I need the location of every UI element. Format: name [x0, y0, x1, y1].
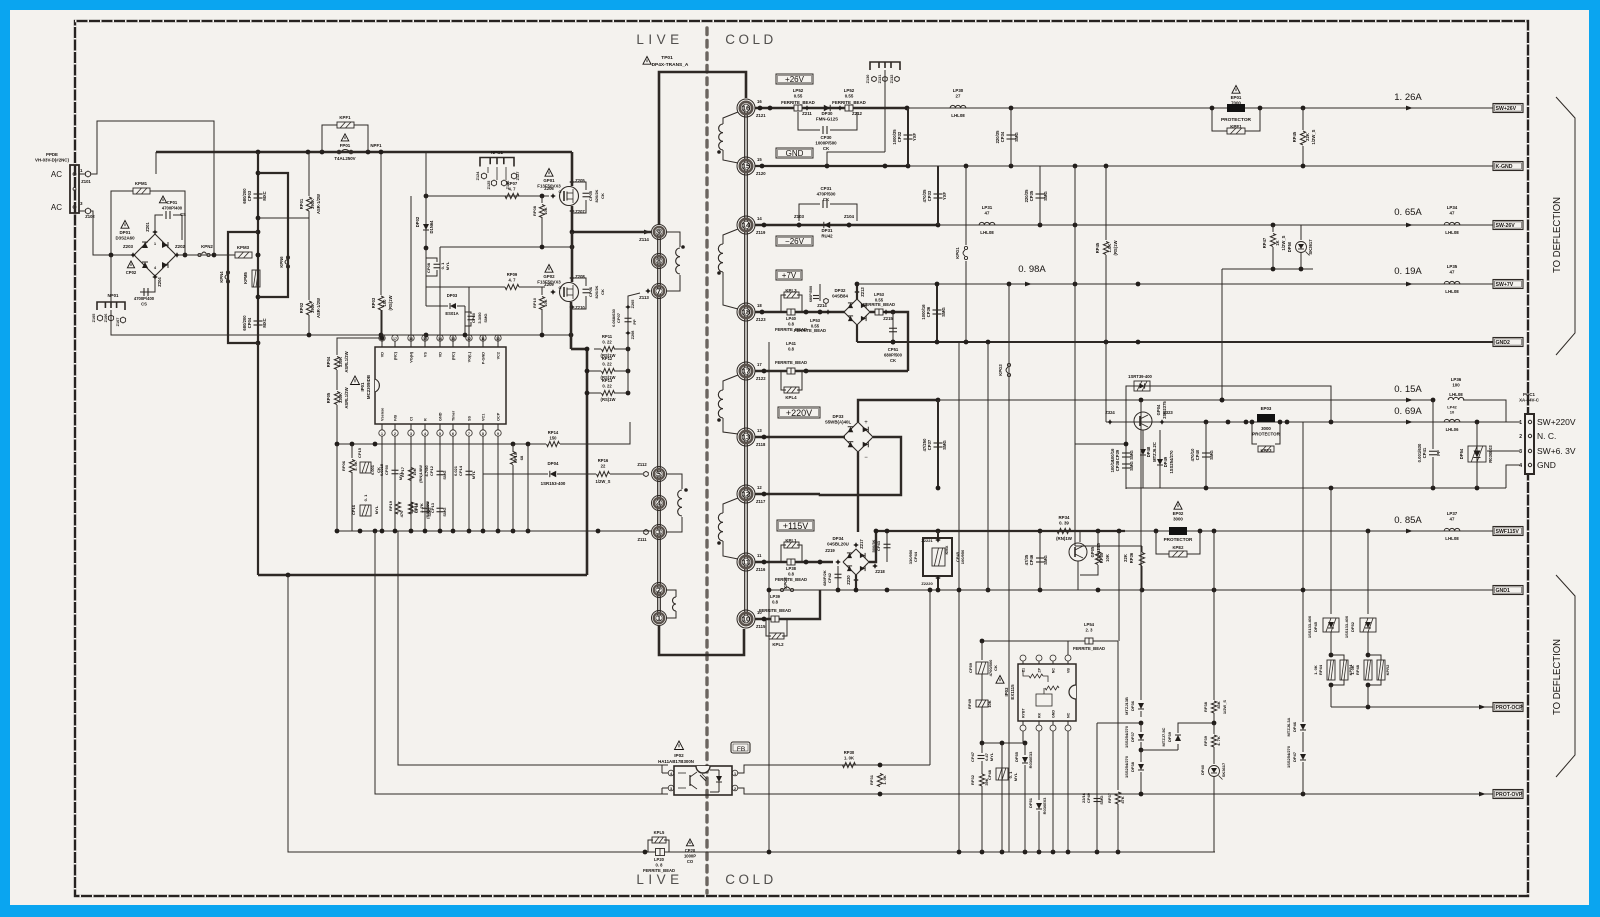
svg-text:12: 12 — [757, 485, 762, 490]
svg-text:LHL08: LHL08 — [1449, 392, 1463, 397]
svg-text:ASRL1/2W: ASRL1/2W — [344, 387, 349, 408]
svg-text:04SB84: 04SB84 — [832, 294, 848, 299]
arrow PROT-OVP — [1479, 792, 1486, 797]
zener Z208b — [625, 330, 631, 336]
svg-text:1/2W_S: 1/2W_S — [596, 479, 611, 484]
svg-text:LHL08: LHL08 — [980, 230, 994, 235]
svg-text:PROT-OCP: PROT-OCP — [1496, 705, 1524, 711]
svg-text:4. 7K: 4. 7K — [1216, 736, 1221, 746]
resistor RP18 — [408, 502, 413, 514]
IC pin top 2 ((NC)) — [394, 341, 396, 347]
svg-text:47: 47 — [1450, 270, 1455, 275]
zener Z218 — [872, 563, 878, 569]
svg-text:CP01: CP01 — [167, 200, 178, 205]
svg-text:100/16: 100/16 — [1110, 448, 1115, 461]
opto pin1 — [732, 770, 738, 776]
svg-text:GND1: GND1 — [1496, 588, 1511, 594]
svg-text:NPF1: NPF1 — [370, 143, 382, 148]
resistor RP08 — [541, 196, 543, 203]
wire opto pin4 left jog — [662, 765, 668, 773]
svg-text:SMG: SMG — [483, 313, 488, 322]
wire CP38 tie — [1075, 443, 1126, 445]
svg-text:LP36: LP36 — [1451, 377, 1462, 382]
svg-text:GND: GND — [1537, 460, 1556, 470]
arrester Z127 — [511, 173, 516, 179]
svg-text:RP48: RP48 — [1355, 664, 1360, 675]
warning IP02 — [675, 741, 684, 750]
transformer pin 17 — [737, 362, 755, 380]
svg-text:DP46: DP46 — [1292, 721, 1297, 732]
svg-text:SMG: SMG — [941, 307, 946, 317]
zener Z215 — [883, 309, 889, 315]
diode DP37 — [1140, 723, 1142, 732]
svg-text:KPM5: KPM5 — [243, 272, 248, 284]
wire +115V rail pin11 to bridge — [755, 561, 833, 563]
transformer pin 16 — [737, 99, 755, 117]
svg-text:LP31: LP31 — [982, 205, 993, 210]
resistor pair RP44/KPR4 — [1330, 632, 1332, 655]
svg-text:DP54: DP54 — [1459, 448, 1464, 459]
svg-text:Z112: Z112 — [637, 462, 647, 467]
zener Z212 — [837, 105, 843, 111]
svg-text:3: 3 — [657, 530, 661, 537]
wire bridge right loop to pin12 — [858, 437, 901, 495]
diode DP52 boxed — [1360, 618, 1376, 632]
svg-text:T4AL250V: T4AL250V — [334, 156, 355, 161]
transformer pin 1 — [652, 611, 667, 626]
svg-text:MYL: MYL — [471, 470, 476, 479]
svg-text:CS: CS — [180, 212, 186, 217]
svg-text:Z213: Z213 — [860, 287, 865, 297]
wire 0.15A to POC1 pin1 — [1463, 400, 1506, 422]
svg-text:0. 39: 0. 39 — [1059, 521, 1069, 526]
node junctions on K-GND rail — [760, 164, 765, 169]
svg-text:680P/2K: 680P/2K — [822, 570, 827, 586]
svg-text:KPG3: KPG3 — [998, 364, 1003, 376]
resistor RP11 — [602, 346, 615, 351]
svg-text:2. 3: 2. 3 — [1086, 627, 1094, 632]
svg-text:4.7/50: 4.7/50 — [424, 465, 429, 477]
svg-text:R: R — [424, 418, 428, 421]
zener Z205 — [569, 179, 575, 185]
LED DP40 — [1209, 766, 1220, 777]
optocoupler IP02 body — [674, 766, 732, 795]
svg-text:YXF: YXF — [912, 132, 917, 141]
svg-text:(RN)1W: (RN)1W — [1056, 536, 1073, 541]
svg-text:RP05: RP05 — [326, 392, 331, 403]
svg-text:470P/500: 470P/500 — [817, 192, 836, 197]
svg-text:0.001: 0.001 — [370, 464, 375, 475]
svg-text:47K: 47K — [1120, 796, 1125, 803]
ferrite bead LP38 — [787, 559, 795, 565]
svg-text:04SBL20U: 04SBL20U — [827, 542, 849, 547]
svg-text:DP33: DP33 — [833, 414, 845, 419]
svg-text:10: 10 — [757, 610, 762, 615]
svg-text:2: 2 — [657, 588, 661, 595]
svg-text:PPDE: PPDE — [46, 152, 58, 157]
svg-text:1/2W_S: 1/2W_S — [1311, 129, 1316, 144]
svg-text:VC2: VC2 — [497, 352, 501, 359]
svg-text:CP59: CP59 — [968, 662, 973, 673]
svg-text:1SS133-400: 1SS133-400 — [1307, 615, 1312, 638]
wire bridge bottom down to +115V bridge — [857, 452, 859, 532]
svg-text:DP55: DP55 — [1014, 751, 1019, 762]
svg-text:CP36: CP36 — [926, 306, 931, 317]
svg-text:1SS133-400: 1SS133-400 — [1344, 615, 1349, 638]
capacitor CP41 — [1429, 450, 1437, 452]
svg-text:KPM3: KPM3 — [237, 245, 250, 250]
svg-text:DP30: DP30 — [822, 111, 834, 116]
svg-text:DP31: DP31 — [822, 228, 834, 233]
loop KPN4 left — [228, 232, 258, 343]
IC pin bottom 2 (F/B) — [394, 424, 396, 430]
svg-text:0.8: 0.8 — [788, 346, 794, 351]
svg-text:CP41: CP41 — [1422, 447, 1427, 458]
wire RP49 down — [981, 707, 983, 743]
svg-text:390K: 390K — [310, 199, 315, 209]
svg-text:RP35: RP35 — [1099, 552, 1104, 563]
svg-text:0.021: 0.021 — [453, 465, 458, 476]
arrow 0.15A — [1406, 398, 1413, 403]
bridge rectifier DP34 — [843, 549, 869, 575]
capacitor CP03 — [257, 152, 259, 343]
IP03 pin bottom 3 — [1052, 721, 1054, 725]
svg-text:0. 98A: 0. 98A — [1018, 264, 1046, 275]
wire RP01 bottom tie — [258, 217, 309, 219]
zener DP36 — [1140, 400, 1142, 700]
svg-text:CP14: CP14 — [458, 465, 463, 476]
svg-text:CK: CK — [600, 289, 605, 295]
svg-text:R030E03: R030E03 — [1042, 797, 1047, 814]
svg-text:CP13: CP13 — [430, 502, 435, 513]
svg-text:Z131: Z131 — [878, 75, 882, 84]
transformer pin 9 — [652, 225, 667, 240]
svg-text:0. 22: 0. 22 — [602, 361, 612, 366]
resistor RP38 — [1213, 697, 1215, 700]
warning FP01 — [341, 134, 349, 141]
wire vertical x1075 — [1074, 166, 1076, 284]
svg-text:LIVE: LIVE — [636, 872, 683, 887]
svg-text:68: 68 — [519, 455, 524, 460]
svg-text:DP47: DP47 — [1292, 751, 1297, 762]
svg-text:(RN)1/8W: (RN)1/8W — [418, 465, 423, 483]
diode network 1SRT39-400 loop — [1126, 386, 1331, 422]
capacitor CP31 snubber loop — [799, 204, 820, 221]
svg-text:Z220: Z220 — [846, 575, 851, 585]
svg-text:1SS254/270: 1SS254/270 — [1169, 450, 1174, 474]
svg-text:KPN6: KPN6 — [279, 256, 284, 268]
secondary winding 12-11 — [723, 498, 738, 513]
svg-text:5: 5 — [439, 432, 441, 436]
svg-text:ASR-1/2W: ASR-1/2W — [316, 194, 321, 214]
svg-text:DP48: DP48 — [1146, 446, 1151, 457]
spark gap NPG1 — [480, 158, 514, 167]
arrester Z106 — [108, 315, 113, 321]
LED DP50 — [1300, 225, 1302, 240]
zener Z217 — [853, 542, 859, 548]
svg-text:Z202: Z202 — [175, 244, 186, 249]
svg-text:10K: 10K — [543, 207, 548, 214]
svg-text:CP04: CP04 — [247, 317, 252, 328]
svg-text:GP02: GP02 — [543, 274, 555, 279]
arrester Z132 — [895, 76, 900, 81]
resistor RP03 — [380, 152, 382, 295]
svg-text:CP31: CP31 — [821, 186, 833, 191]
IC pin bottom 8 (VC1) — [482, 424, 484, 430]
svg-text:11: 11 — [757, 553, 762, 558]
wire vertical x769 — [768, 342, 770, 852]
svg-text:PROTECTOR: PROTECTOR — [1252, 432, 1280, 437]
svg-text:KPN2: KPN2 — [201, 244, 213, 249]
svg-text:17: 17 — [393, 337, 397, 341]
svg-text:3: 3 — [670, 787, 672, 791]
svg-text:CO: CO — [687, 859, 694, 864]
svg-text:SW+26V: SW+26V — [1496, 106, 1517, 112]
svg-text:DP50: DP50 — [1287, 241, 1292, 252]
arrow on +26V rail — [1406, 106, 1413, 111]
capacitor CP40 — [1205, 422, 1207, 488]
svg-text:LP20: LP20 — [654, 857, 665, 862]
wire +7V return rail pin17 — [755, 370, 908, 372]
svg-text:(RS)1W: (RS)1W — [388, 296, 393, 311]
svg-text:CK: CK — [993, 665, 998, 671]
svg-text:FERRITE_BEAD: FERRITE_BEAD — [643, 868, 675, 873]
wire POC1 pin4 feed — [1506, 465, 1520, 488]
resistor RP49 — [976, 700, 988, 707]
svg-text:R030E03: R030E03 — [1488, 445, 1493, 463]
terminal box GND2 — [1493, 338, 1523, 347]
svg-text:OCP: OCP — [497, 412, 501, 421]
svg-text:47: 47 — [1450, 517, 1455, 522]
svg-text:TP01: TP01 — [661, 55, 673, 61]
svg-text:FERRITE_BEAD: FERRITE_BEAD — [775, 360, 807, 365]
svg-text:KPF1: KPF1 — [339, 115, 351, 120]
wire pin12 rail — [755, 493, 820, 496]
wire pin10 to GND1 rail — [790, 590, 820, 619]
svg-text:D1N64: D1N64 — [429, 220, 434, 234]
svg-text:AC: AC — [51, 170, 62, 179]
svg-text:9: 9 — [657, 230, 661, 237]
svg-text:1. 0K: 1. 0K — [1313, 665, 1318, 675]
svg-text:SW+7V: SW+7V — [1496, 282, 1514, 288]
diode DP45 boxed — [1323, 618, 1339, 632]
svg-text:DP34: DP34 — [833, 536, 845, 541]
svg-text:680P/500: 680P/500 — [884, 352, 903, 357]
resistor network KPL1 loop — [781, 545, 786, 562]
svg-text:CP46: CP46 — [1029, 554, 1034, 565]
svg-text:MTZJ6.3A: MTZJ6.3A — [1286, 717, 1291, 736]
svg-text:27: 27 — [956, 94, 961, 99]
svg-text:(RS)1W: (RS)1W — [601, 397, 616, 402]
arrester Z130 — [872, 76, 877, 81]
svg-text:RP10: RP10 — [532, 297, 537, 308]
wire RP03 bottom tie — [309, 334, 381, 336]
svg-text:RP04: RP04 — [326, 356, 331, 367]
svg-text:FERRITE_BEAD: FERRITE_BEAD — [794, 328, 826, 333]
svg-text:NP01: NP01 — [108, 293, 120, 298]
svg-text:FERRITE_BEAD: FERRITE_BEAD — [781, 100, 815, 105]
svg-text:ASR-1/2W: ASR-1/2W — [316, 298, 321, 318]
warning GP02 — [545, 265, 553, 273]
capacitor CP32 — [907, 108, 909, 166]
zener Z207 — [569, 208, 575, 214]
zener Z2xx stub top — [625, 304, 631, 310]
svg-text:KPN4: KPN4 — [219, 271, 224, 283]
resistor RP05 — [334, 392, 339, 405]
svg-text:Z116: Z116 — [756, 567, 766, 572]
svg-text:Z117: Z117 — [756, 499, 766, 504]
zener Z112 at pin5 — [644, 471, 649, 476]
hex Z112 stub — [645, 530, 651, 532]
resistor RP47 1K with LED DP50 branch — [1272, 225, 1274, 232]
capacitor CP36 — [936, 284, 938, 342]
svg-text:DP40: DP40 — [1200, 764, 1205, 775]
svg-text:3.3/50: 3.3/50 — [477, 312, 482, 324]
wire IP03 pin1 down — [1022, 731, 1024, 743]
svg-text:RP12: RP12 — [602, 356, 613, 361]
resistor RP31 — [877, 774, 882, 787]
resistor RP12 — [587, 370, 601, 372]
svg-text:Z114: Z114 — [639, 237, 649, 242]
terminal box PROT-OVP — [1493, 790, 1523, 799]
svg-text:LHL06: LHL06 — [1446, 427, 1459, 432]
wire drain bus x572 upper — [571, 152, 574, 186]
svg-text:GP01: GP01 — [543, 178, 555, 183]
svg-text:1: 1 — [734, 772, 736, 776]
wire vertical x1214 down — [1213, 531, 1215, 697]
svg-text:10K: 10K — [412, 468, 417, 475]
svg-text:PP: PP — [1436, 450, 1441, 456]
wire pin1 tie — [381, 436, 383, 444]
svg-text:KPE2: KPE2 — [1173, 545, 1185, 550]
svg-text:1000P: 1000P — [684, 853, 696, 858]
svg-text:FERRITE_BEAD: FERRITE_BEAD — [1073, 646, 1105, 651]
svg-text:Z130: Z130 — [866, 75, 870, 84]
svg-text:LP54: LP54 — [1084, 622, 1095, 627]
wire gate bus y287 — [426, 286, 505, 288]
svg-text:LP34: LP34 — [1447, 205, 1458, 210]
svg-text:1. 0K: 1. 0K — [882, 775, 887, 785]
svg-text:NC: NC — [1052, 668, 1056, 674]
resistor network KPL5 loop — [648, 840, 653, 852]
svg-text:10K: 10K — [1105, 554, 1110, 562]
capacitor CP01 loop — [155, 215, 163, 232]
svg-text:VC1: VC1 — [482, 414, 486, 421]
MOSFET GP01 — [560, 187, 579, 206]
svg-text:3000: 3000 — [1173, 517, 1183, 522]
IP03 pin top 3 — [1052, 661, 1054, 664]
transformer pin 7 — [652, 284, 667, 299]
svg-text:4: 4 — [424, 432, 426, 436]
svg-text:KPG2: KPG2 — [783, 577, 788, 589]
wire pin1 riser x930 — [929, 590, 931, 765]
wire IC bottom bus y531 — [337, 530, 645, 532]
capacitor CP20 — [686, 839, 693, 846]
zener Z208 — [569, 275, 575, 281]
svg-text:−26V: −26V — [785, 237, 805, 246]
node CP03 dots — [256, 171, 261, 176]
ferrite bead LP39 — [771, 616, 779, 622]
label GND box — [776, 148, 813, 158]
svg-text:G: G — [559, 190, 562, 194]
transformer pin 12 — [737, 485, 755, 503]
svg-text:8: 8 — [482, 432, 484, 436]
svg-text:DP49: DP49 — [1163, 456, 1168, 467]
primary winding 2-1 — [666, 590, 676, 597]
wire vertical x1222 — [1221, 269, 1223, 400]
wire x337 down — [336, 444, 338, 531]
svg-text:330/25: 330/25 — [425, 501, 430, 514]
svg-text:4: 4 — [1519, 463, 1522, 469]
node DP02 — [424, 246, 429, 251]
svg-text:100/16: 100/16 — [1110, 459, 1115, 472]
svg-text:Z124: Z124 — [476, 171, 480, 181]
wire vertical x1331 down — [1330, 488, 1332, 614]
svg-text:3000: 3000 — [1261, 426, 1271, 431]
capacitor CP35 — [1039, 166, 1041, 225]
connector PPDE AC input — [70, 165, 79, 213]
svg-text:MXC: MXC — [262, 191, 267, 200]
svg-text:CP30: CP30 — [821, 135, 833, 140]
svg-text:1. 26A: 1. 26A — [1394, 92, 1422, 103]
svg-text:0. 69A: 0. 69A — [1394, 406, 1422, 417]
svg-text:EP01: EP01 — [1231, 95, 1242, 100]
wire POC1 pin3 feed — [1487, 450, 1520, 452]
capacitor CP50 — [392, 469, 399, 471]
svg-text:DP38: DP38 — [1130, 761, 1135, 772]
svg-text:MTZJ13B: MTZJ13B — [1124, 697, 1129, 715]
svg-text:CP44: CP44 — [913, 551, 918, 562]
svg-text:RP15: RP15 — [513, 452, 518, 463]
svg-text:SMG: SMG — [442, 507, 447, 516]
opto LED — [716, 776, 722, 782]
svg-text:680/200: 680/200 — [242, 188, 247, 204]
svg-text:+26V: +26V — [785, 75, 805, 84]
svg-text:CP15: CP15 — [357, 447, 362, 458]
transformer pin 14 — [737, 216, 755, 234]
fuse network KPM1 loop — [111, 191, 133, 255]
wire IP03 pin3 down — [1052, 731, 1054, 852]
resistor network KPL4 loop — [781, 371, 786, 390]
svg-text:13: 13 — [742, 433, 750, 442]
svg-text:1. 0K: 1. 0K — [1350, 665, 1355, 675]
svg-text:RP47: RP47 — [1262, 237, 1267, 248]
wire IP03 pin2 down — [1038, 731, 1040, 800]
wire +115V out rail — [876, 530, 1125, 532]
terminal box SW115V — [1493, 527, 1523, 536]
svg-text:KMX: KMX — [944, 545, 949, 554]
svg-text:PROTECTOR: PROTECTOR — [1164, 537, 1193, 542]
svg-text:RP07: RP07 — [507, 181, 518, 186]
svg-text:CP37: CP37 — [927, 439, 932, 450]
svg-text:CP16: CP16 — [351, 504, 356, 515]
MOSFET GP02 — [560, 283, 579, 302]
zener Z103 — [796, 222, 802, 228]
wire GP02 drain — [571, 232, 574, 282]
svg-text:VD: VD — [439, 352, 443, 358]
svg-text:1000/35: 1000/35 — [892, 129, 897, 145]
terminal box PROT-OCP — [1493, 703, 1523, 712]
bridge rectifier DP33 — [843, 422, 873, 452]
zener Z111 at pin3 — [644, 529, 649, 534]
svg-text:0.8: 0.8 — [788, 571, 794, 576]
resistor RP10 — [541, 287, 543, 295]
svg-text:Z219: Z219 — [825, 548, 835, 553]
svg-text:83K: 83K — [1216, 701, 1221, 708]
IC pin top 4 (VS) — [424, 341, 426, 347]
svg-text:CP34: CP34 — [1000, 131, 1005, 142]
zener Z210 — [569, 304, 575, 310]
